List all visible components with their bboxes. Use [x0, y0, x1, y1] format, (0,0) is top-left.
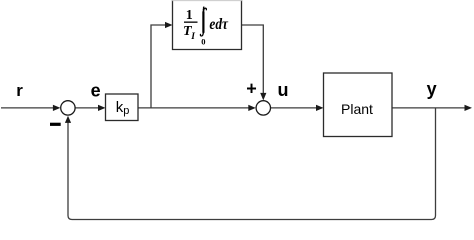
svg-text:r: r: [16, 81, 23, 100]
wire sum1 to kp: [76, 107, 100, 109]
svg-text:u: u: [278, 80, 289, 100]
summing junction 2: [256, 101, 270, 115]
wire kp output to sum2: [138, 107, 250, 109]
wire r input: [1, 107, 54, 109]
svg-text:edτ: edτ: [209, 16, 228, 33]
label minus sign: [50, 123, 61, 126]
wire branch up to integral box: [151, 25, 166, 108]
arrowhead into sum1: [53, 105, 61, 111]
arrowhead feedback into sum1 bottom: [65, 116, 71, 123]
arrowhead into integral box: [165, 22, 173, 28]
arrowhead output y: [465, 105, 473, 111]
svg-text:Plant: Plant: [341, 101, 373, 117]
svg-text:y: y: [427, 79, 437, 99]
svg-text:e: e: [91, 80, 101, 100]
svg-text:+: +: [246, 79, 257, 99]
svg-text:0: 0: [201, 37, 205, 47]
arrowhead into kp: [98, 105, 106, 111]
wire feedback loop: [68, 108, 436, 220]
arrowhead into sum2 from left: [248, 105, 256, 111]
kp box: [106, 94, 139, 121]
summing junction 1: [61, 101, 75, 115]
wire plant output to y: [392, 107, 466, 109]
integral sign: [200, 8, 206, 36]
integral box: [173, 0, 242, 50]
wire integral box output down to sum2: [242, 25, 264, 94]
arrowhead into plant: [316, 105, 324, 111]
integral term math: [183, 4, 229, 47]
arrowhead into sum2 from top: [260, 93, 266, 101]
wire sum2 to plant: [271, 107, 317, 109]
svg-text:1: 1: [186, 8, 193, 23]
plant box: [324, 73, 393, 137]
